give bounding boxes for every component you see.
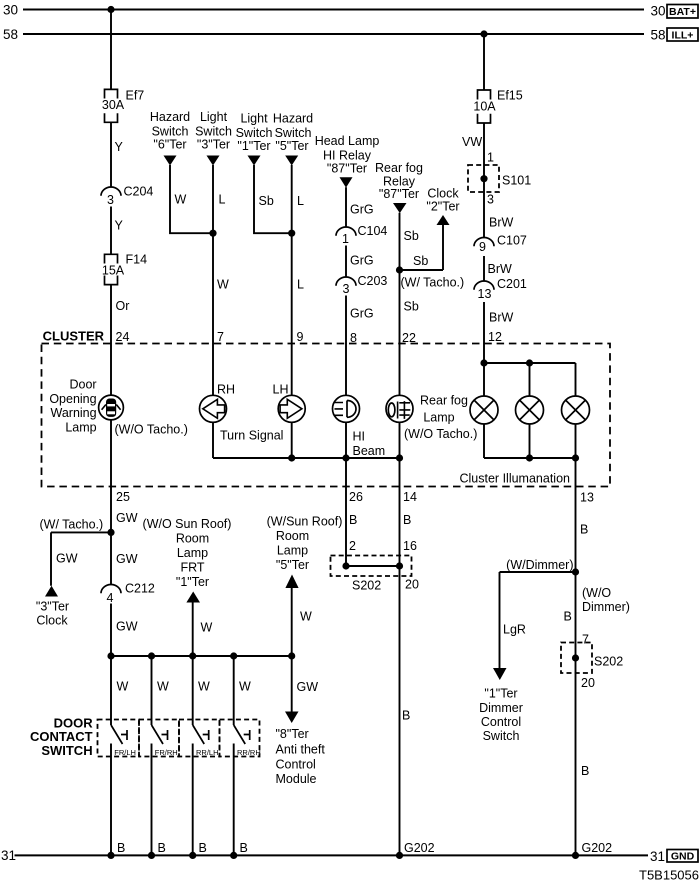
svg-text:2: 2	[349, 539, 356, 553]
svg-text:W: W	[239, 680, 251, 694]
svg-text:(W/O: (W/O	[582, 586, 611, 600]
svg-text:30: 30	[3, 3, 18, 18]
svg-text:Lamp: Lamp	[423, 411, 454, 425]
svg-text:Hazard: Hazard	[273, 112, 313, 126]
svg-text:31: 31	[1, 848, 16, 863]
svg-text:CONTACT: CONTACT	[30, 729, 93, 744]
svg-text:LgR: LgR	[503, 623, 526, 637]
svg-text:"1"Ter: "1"Ter	[484, 687, 517, 701]
svg-text:GND: GND	[671, 851, 695, 863]
svg-text:"1"Ter: "1"Ter	[176, 575, 209, 589]
svg-text:C203: C203	[358, 274, 388, 288]
svg-text:10A: 10A	[473, 100, 496, 114]
svg-text:1: 1	[487, 151, 494, 165]
svg-text:W: W	[300, 610, 312, 624]
svg-text:Rear fog: Rear fog	[375, 161, 423, 175]
svg-text:L: L	[297, 278, 304, 292]
svg-text:F14: F14	[126, 253, 148, 267]
svg-text:58: 58	[3, 27, 18, 42]
svg-text:GW: GW	[116, 620, 138, 634]
svg-text:C104: C104	[358, 224, 388, 238]
svg-text:Door: Door	[70, 378, 97, 392]
svg-text:Beam: Beam	[353, 444, 386, 458]
svg-text:Turn Signal: Turn Signal	[220, 429, 283, 443]
svg-text:Switch: Switch	[195, 125, 232, 139]
svg-text:B: B	[580, 523, 588, 537]
svg-text:S202: S202	[594, 655, 623, 669]
svg-text:B: B	[402, 709, 410, 723]
svg-text:Switch: Switch	[275, 126, 312, 140]
svg-text:B: B	[240, 841, 248, 855]
svg-text:C107: C107	[497, 234, 527, 248]
svg-text:B: B	[403, 513, 411, 527]
svg-text:Anti theft: Anti theft	[276, 743, 326, 757]
svg-text:"87"Ter: "87"Ter	[327, 162, 367, 176]
svg-text:(W/Dimmer): (W/Dimmer)	[506, 558, 573, 572]
svg-text:T5B15056: T5B15056	[639, 868, 699, 882]
svg-text:C212: C212	[125, 582, 155, 596]
svg-text:"3"Ter: "3"Ter	[197, 138, 230, 152]
svg-text:W: W	[157, 680, 169, 694]
svg-text:Sb: Sb	[404, 300, 419, 314]
svg-text:B: B	[117, 841, 125, 855]
svg-text:"1"Ter: "1"Ter	[237, 139, 270, 153]
svg-text:58: 58	[650, 28, 665, 43]
svg-text:C201: C201	[497, 277, 527, 291]
svg-text:Control: Control	[481, 715, 521, 729]
svg-text:W: W	[117, 680, 129, 694]
svg-text:"87"Ter: "87"Ter	[379, 187, 419, 201]
svg-text:14: 14	[403, 490, 417, 504]
svg-text:31: 31	[650, 849, 665, 864]
svg-text:LH: LH	[273, 383, 289, 397]
svg-text:(W/O Sun Roof): (W/O Sun Roof)	[143, 517, 232, 531]
svg-text:Switch: Switch	[152, 125, 189, 139]
svg-text:Room: Room	[276, 529, 309, 543]
svg-text:20: 20	[405, 578, 419, 592]
svg-text:Clock: Clock	[36, 614, 68, 628]
svg-text:Dimmer: Dimmer	[479, 701, 523, 715]
svg-text:C204: C204	[124, 185, 154, 199]
svg-text:1: 1	[342, 232, 349, 246]
svg-text:CLUSTER: CLUSTER	[43, 329, 105, 344]
svg-text:"6"Ter: "6"Ter	[153, 138, 186, 152]
svg-text:22: 22	[402, 331, 416, 345]
svg-text:3: 3	[107, 193, 114, 207]
svg-text:GrG: GrG	[350, 254, 374, 268]
svg-text:(W/O Tacho.): (W/O Tacho.)	[115, 423, 188, 437]
svg-text:20: 20	[581, 676, 595, 690]
svg-text:Control: Control	[276, 758, 316, 772]
svg-text:"5"Ter: "5"Ter	[276, 558, 309, 572]
svg-text:Room: Room	[176, 532, 209, 546]
svg-text:30: 30	[650, 4, 665, 19]
svg-text:Sb: Sb	[259, 194, 274, 208]
svg-text:G202: G202	[582, 841, 613, 855]
svg-text:Light: Light	[240, 112, 268, 126]
svg-text:"3"Ter: "3"Ter	[36, 600, 69, 614]
svg-text:RR/RH: RR/RH	[237, 748, 261, 757]
svg-text:4: 4	[107, 591, 114, 605]
svg-text:Ef7: Ef7	[126, 89, 145, 103]
svg-text:30A: 30A	[102, 98, 125, 112]
svg-text:15A: 15A	[102, 264, 125, 278]
svg-text:13: 13	[478, 287, 492, 301]
svg-text:Y: Y	[115, 140, 124, 154]
svg-text:GrG: GrG	[350, 307, 374, 321]
svg-text:Lamp: Lamp	[277, 544, 308, 558]
svg-text:B: B	[349, 513, 357, 527]
svg-text:GW: GW	[116, 511, 138, 525]
svg-text:Light: Light	[200, 110, 228, 124]
svg-text:Lamp: Lamp	[65, 421, 96, 435]
svg-text:ILL+: ILL+	[672, 30, 694, 42]
svg-text:BrW: BrW	[489, 311, 514, 325]
svg-text:"2"Ter: "2"Ter	[426, 200, 459, 214]
svg-text:Switch: Switch	[236, 126, 273, 140]
svg-text:8: 8	[350, 331, 357, 345]
svg-text:W: W	[175, 193, 187, 207]
svg-text:L: L	[219, 193, 226, 207]
svg-text:FR/LH: FR/LH	[114, 748, 136, 757]
svg-text:12: 12	[488, 330, 502, 344]
svg-text:(W/ Tacho.): (W/ Tacho.)	[40, 518, 104, 532]
svg-text:Sb: Sb	[413, 254, 428, 268]
svg-text:"8"Ter: "8"Ter	[276, 727, 309, 741]
svg-text:9: 9	[297, 330, 304, 344]
svg-text:FR/RH: FR/RH	[155, 748, 178, 757]
svg-text:24: 24	[116, 330, 130, 344]
svg-text:L: L	[297, 194, 304, 208]
svg-text:13: 13	[580, 491, 594, 505]
svg-text:Switch: Switch	[483, 729, 520, 743]
svg-text:26: 26	[349, 490, 363, 504]
svg-text:B: B	[581, 764, 589, 778]
svg-text:(W/O Tacho.): (W/O Tacho.)	[404, 427, 477, 441]
svg-text:S202: S202	[352, 579, 381, 593]
svg-text:Cluster Illumanation: Cluster Illumanation	[460, 472, 571, 486]
svg-text:GW: GW	[297, 680, 319, 694]
svg-text:Clock: Clock	[427, 187, 459, 201]
svg-text:VW: VW	[462, 135, 482, 149]
svg-text:9: 9	[479, 240, 486, 254]
svg-text:B: B	[158, 841, 166, 855]
svg-text:HI: HI	[353, 430, 366, 444]
svg-text:3: 3	[343, 282, 350, 296]
svg-text:Dimmer): Dimmer)	[582, 600, 630, 614]
svg-text:RH: RH	[217, 383, 235, 397]
svg-text:B: B	[199, 841, 207, 855]
svg-text:FRT: FRT	[180, 561, 204, 575]
svg-text:Head Lamp: Head Lamp	[315, 134, 380, 148]
svg-text:"5"Ter: "5"Ter	[275, 139, 308, 153]
svg-text:B: B	[564, 610, 572, 624]
svg-text:BAT+: BAT+	[669, 6, 696, 18]
svg-text:Lamp: Lamp	[177, 546, 208, 560]
svg-text:W: W	[201, 621, 213, 635]
svg-text:25: 25	[116, 490, 130, 504]
svg-text:7: 7	[582, 633, 589, 647]
svg-text:BrW: BrW	[489, 216, 514, 230]
svg-text:W: W	[217, 278, 229, 292]
svg-text:Opening: Opening	[49, 392, 96, 406]
svg-text:S101: S101	[502, 174, 531, 188]
svg-text:SWITCH: SWITCH	[41, 743, 92, 758]
svg-text:(W/Sun Roof): (W/Sun Roof)	[267, 515, 343, 529]
svg-text:RR/LH: RR/LH	[196, 748, 219, 757]
svg-text:BrW: BrW	[488, 262, 513, 276]
svg-text:Hazard: Hazard	[150, 110, 190, 124]
svg-text:Warning: Warning	[51, 406, 97, 420]
svg-text:G202: G202	[404, 841, 435, 855]
svg-text:3: 3	[487, 193, 494, 207]
svg-text:Y: Y	[115, 219, 124, 233]
svg-text:7: 7	[217, 330, 224, 344]
svg-text:16: 16	[403, 539, 417, 553]
svg-text:GW: GW	[116, 552, 138, 566]
svg-text:Ef15: Ef15	[497, 89, 523, 103]
svg-text:GrG: GrG	[350, 203, 374, 217]
svg-text:W: W	[198, 680, 210, 694]
svg-text:HI Relay: HI Relay	[323, 149, 372, 163]
svg-text:Rear fog: Rear fog	[420, 394, 468, 408]
svg-text:GW: GW	[56, 552, 78, 566]
svg-text:Or: Or	[116, 299, 130, 313]
svg-text:Sb: Sb	[404, 229, 419, 243]
svg-text:(W/ Tacho.): (W/ Tacho.)	[401, 276, 465, 290]
svg-text:Module: Module	[276, 772, 317, 786]
